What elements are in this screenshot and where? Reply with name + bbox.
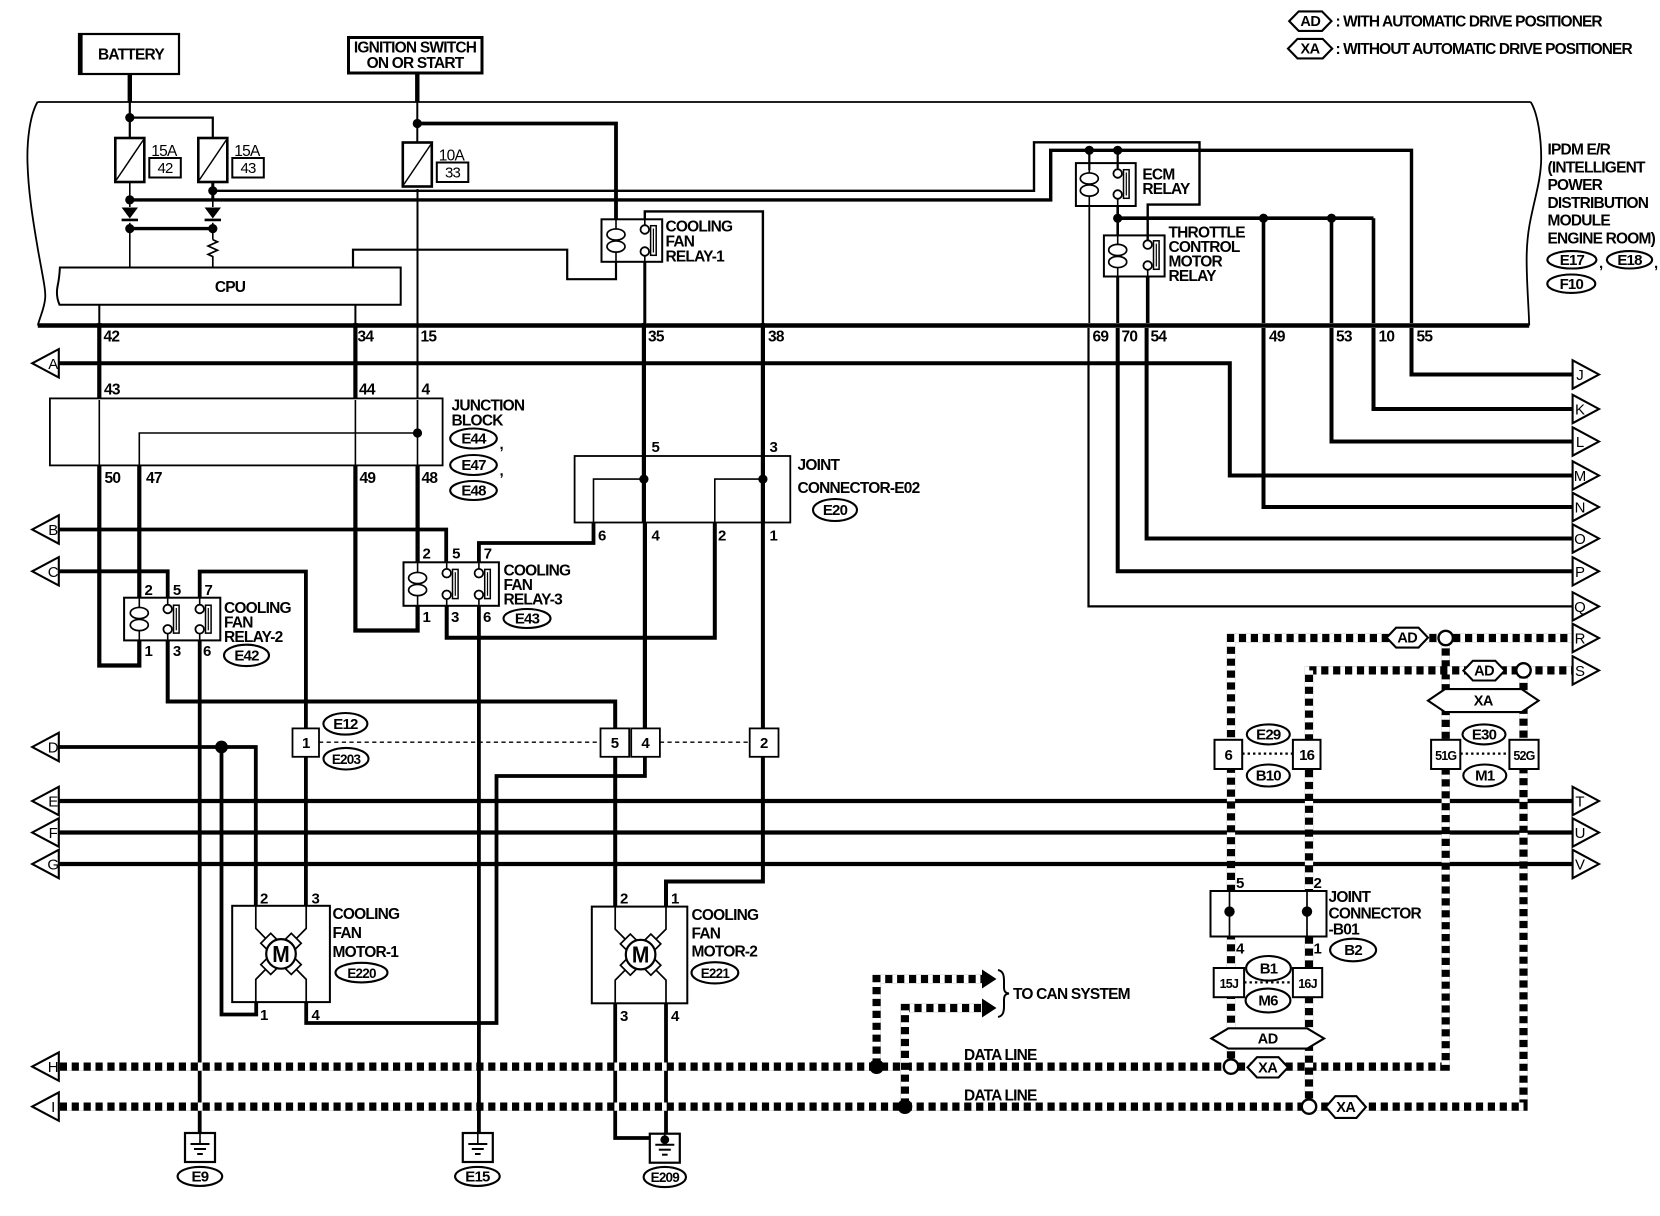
svg-text:MOTOR-2: MOTOR-2 [692, 944, 758, 961]
wire relay-2 pin 6 to ground E9 [198, 640, 202, 1133]
svg-text:E30: E30 [1472, 727, 1497, 744]
svg-text:T: T [1575, 794, 1584, 811]
svg-text:C: C [48, 564, 59, 581]
junction block internal 44-49 wire [354, 400, 356, 465]
arrow E [32, 787, 59, 815]
AD hexagon wide above data line [1211, 1028, 1324, 1048]
cooling fan motor-2 [592, 907, 688, 1004]
svg-text:7: 7 [484, 546, 492, 563]
AD hexagon on R line [1387, 628, 1428, 648]
svg-text:49: 49 [360, 470, 377, 487]
wire relay-2 pin 7 to connector E203 pin 1 [200, 572, 306, 729]
wire pin 49 to N [1264, 328, 1573, 507]
junction battery branch [125, 113, 134, 122]
svg-text:JOINT: JOINT [798, 457, 841, 474]
connector ref E9 [178, 1167, 223, 1186]
wire CPU pin 34 to bus [354, 305, 356, 323]
svg-text:AD: AD [1397, 631, 1417, 647]
connector ref E209 [644, 1167, 686, 1187]
wire pin 42 to junction block pin 43 [97, 323, 101, 398]
svg-text:E203: E203 [332, 752, 362, 767]
wire E to T [59, 799, 1573, 803]
wire drop to pin 10 [1372, 218, 1376, 323]
svg-text:70: 70 [1122, 329, 1138, 346]
svg-text:34: 34 [358, 329, 375, 346]
svg-text:E20: E20 [823, 502, 848, 519]
wire E02 pin 1 through E203 pin 2 to motor-2 pin 1 [666, 523, 763, 907]
CAN data line I [59, 678, 1524, 1107]
svg-text:ON OR START: ON OR START [367, 55, 465, 72]
svg-text:E18: E18 [1617, 252, 1642, 269]
svg-text:U: U [1575, 825, 1585, 842]
wire pin 47 to relay-2 coil (pin 2) [137, 465, 141, 597]
svg-text:E15: E15 [465, 1169, 490, 1186]
svg-text:53: 53 [1336, 329, 1353, 346]
wire ECM relay contact to throttle relay coil [1116, 206, 1119, 235]
arrow D [32, 733, 59, 761]
junction diodes link right [208, 224, 217, 233]
wire diode 1 to CPU [129, 223, 131, 268]
connector box 51G [1431, 740, 1460, 769]
arrow U [1573, 818, 1599, 846]
svg-text:FAN: FAN [333, 925, 362, 942]
dotted link 51G-52G [1460, 752, 1509, 754]
IPDM E/R bottom edge (connector bus) [38, 323, 1529, 328]
wire E02 pin 4 to connector E203 pin 4 [643, 523, 647, 729]
wire relay-3 pin 7 to joint connector E02 pin 6 [479, 523, 594, 563]
connector ref E220 [336, 963, 388, 983]
connector box 52G [1509, 740, 1538, 769]
svg-text:IGNITION SWITCH: IGNITION SWITCH [354, 40, 477, 57]
svg-text:6: 6 [203, 643, 211, 660]
junction block internal 43-50 wire [98, 400, 100, 465]
svg-text:RELAY: RELAY [1169, 268, 1218, 285]
svg-text:DISTRIBUTION: DISTRIBUTION [1548, 195, 1649, 212]
CPU box [57, 268, 401, 305]
wire ignition branch to cooling fan relay-1 coil [417, 124, 616, 220]
svg-text:6: 6 [1225, 747, 1233, 764]
svg-text:K: K [1575, 402, 1585, 419]
svg-text:2: 2 [1314, 875, 1322, 892]
brace to CAN system [998, 970, 1009, 1017]
wire fuse 43 to throttle control motor relay feed [214, 142, 1200, 241]
svg-text:5: 5 [652, 439, 660, 456]
svg-text:5: 5 [173, 582, 181, 599]
svg-text:AD: AD [1258, 1031, 1278, 1047]
svg-text:M: M [272, 941, 290, 967]
svg-text:3: 3 [770, 439, 778, 456]
svg-text:H: H [48, 1059, 58, 1076]
svg-text:52G: 52G [1513, 749, 1534, 763]
cooling fan relay-2 contact 2 [195, 598, 211, 641]
svg-text:S: S [1575, 663, 1585, 680]
wire pin 48 to relay-3 coil (pin 2) [416, 465, 420, 562]
cooling fan relay-3 box [404, 562, 499, 606]
connector ref B2 [1330, 939, 1376, 962]
svg-text:F: F [49, 825, 58, 842]
svg-text:E220: E220 [347, 966, 376, 981]
svg-text:B1: B1 [1260, 961, 1278, 978]
svg-text:33: 33 [445, 165, 461, 182]
svg-text:TO CAN SYSTEM: TO CAN SYSTEM [1013, 986, 1130, 1003]
junction pin 53 drop [1327, 214, 1336, 223]
cooling fan relay-1 box E? [602, 219, 663, 261]
cooling fan relay-1 contact [641, 219, 657, 261]
joint connector B01 internal junction right [1302, 906, 1312, 916]
wire ignition to IPDM [415, 74, 419, 102]
ground E15 [463, 1133, 493, 1162]
joint connector B01 internal junction left [1224, 906, 1234, 916]
CAN data line H [59, 645, 1446, 1067]
ground E9 [185, 1133, 215, 1162]
wire ECM relay coil to pin 69 [1088, 206, 1090, 323]
wire pin 53 to L [1332, 328, 1573, 442]
arrow M [1573, 461, 1599, 489]
svg-text:COOLING: COOLING [692, 907, 759, 924]
connector ref B1 [1246, 956, 1291, 981]
svg-text:4: 4 [422, 382, 431, 399]
svg-text:3: 3 [173, 643, 181, 660]
wire E203 pin 4 to motor-1 pin 4 [306, 757, 645, 1023]
svg-text:CONNECTOR-E02: CONNECTOR-E02 [798, 480, 920, 497]
joint connector E02 box [575, 456, 791, 523]
wire CPU to relay-1 coil return [353, 250, 616, 280]
svg-text:7: 7 [205, 582, 213, 599]
svg-text:F10: F10 [1560, 276, 1584, 293]
legend AD hexagon [1289, 11, 1331, 31]
svg-text:CONNECTOR: CONNECTOR [1329, 906, 1422, 923]
arrow G [32, 850, 59, 878]
wire fuse 43 output stub [211, 182, 214, 199]
svg-text:1: 1 [1314, 941, 1322, 958]
svg-text:D: D [48, 740, 59, 757]
arrow L [1573, 427, 1599, 455]
wire relay-1 contact to pin 38 [645, 211, 763, 323]
svg-text:E: E [48, 794, 58, 811]
svg-text:Q: Q [1574, 599, 1585, 616]
arrow Q [1573, 592, 1599, 620]
joint connector E02 internal wire left [594, 479, 644, 522]
ignition switch box [349, 38, 483, 74]
XA hexagon on H line [1248, 1057, 1289, 1077]
wire throttle feed run to pin 10 line [1118, 216, 1374, 220]
connector ref E43 [504, 609, 551, 628]
wire fuse 42 to ECM relay feed (pin 55 run) [131, 150, 1412, 323]
svg-text:49: 49 [1269, 329, 1286, 346]
wire branch to fuse 43 [130, 118, 213, 138]
svg-text:XA: XA [1301, 42, 1321, 58]
XA hexagon wide right [1428, 689, 1539, 712]
junction ECM relay coil feed [1085, 146, 1094, 155]
wire pin 35 to joint connector E02 pin 5 [642, 323, 646, 456]
junction throttle relay coil feed [1113, 214, 1122, 223]
svg-text:51G: 51G [1435, 749, 1456, 763]
svg-text:1: 1 [302, 735, 310, 752]
svg-text:5: 5 [611, 735, 619, 752]
connector ref E17 [1547, 251, 1596, 269]
svg-text:43: 43 [240, 160, 256, 177]
svg-text:2: 2 [760, 735, 768, 752]
svg-text:R: R [1575, 631, 1586, 648]
svg-text:2: 2 [423, 546, 431, 563]
arrow V [1573, 850, 1599, 878]
svg-text:DATA LINE: DATA LINE [964, 1047, 1037, 1064]
svg-text:MOTOR-1: MOTOR-1 [333, 944, 400, 961]
svg-text:JOINT: JOINT [1329, 889, 1372, 906]
svg-text:M: M [1574, 468, 1586, 485]
svg-text:V: V [1575, 857, 1585, 874]
ground E209 [650, 1134, 680, 1163]
svg-text:M: M [632, 942, 650, 968]
wire pin 10 to K [1374, 328, 1573, 409]
svg-text:I: I [51, 1099, 54, 1116]
svg-text:P: P [1575, 564, 1585, 581]
connector ref E29 [1247, 724, 1290, 744]
wire throttle relay coil to pin 70 [1116, 277, 1119, 324]
arrow R [1573, 624, 1599, 652]
arrow K [1573, 395, 1599, 423]
connector ref E47 [450, 455, 497, 475]
svg-text:O: O [1574, 531, 1585, 548]
CAN arrow head 1 [982, 970, 997, 989]
svg-text:J: J [1576, 367, 1583, 384]
connector E12/E203 dashed line [319, 741, 600, 743]
svg-text:(INTELLIGENT: (INTELLIGENT [1548, 159, 1646, 176]
wire D to cooling fan motor-1 pin 2 [60, 747, 256, 906]
wire relay-2 pin 3 to connector E203 pin 5 [168, 640, 616, 728]
svg-text:42: 42 [157, 160, 173, 177]
cooling fan relay-1 coil [607, 219, 625, 261]
connector box 16J [1293, 968, 1322, 997]
wire motor-2 pin 3 to ground E209 [615, 1003, 650, 1138]
wire pin 50 to relay-2 coil (pin 1) [99, 465, 139, 665]
junction CAN branch 1 [869, 1059, 884, 1074]
svg-text:XA: XA [1258, 1060, 1278, 1076]
CAN branch to CAN system 2 [905, 1008, 983, 1107]
arrow O [1573, 524, 1599, 552]
svg-text:AD: AD [1474, 664, 1494, 680]
arrow H [32, 1052, 59, 1080]
svg-text:54: 54 [1151, 329, 1168, 346]
connector E12/E203 box 4 [631, 728, 660, 756]
wire pin 70 to P [1118, 328, 1573, 571]
svg-text:AD: AD [1300, 14, 1320, 30]
wire pin 54 to O [1147, 328, 1573, 539]
wire relay-3 pin 6 to ground E15 [477, 606, 481, 1133]
svg-text:RELAY-1: RELAY-1 [666, 249, 726, 266]
svg-text:A: A [48, 356, 58, 373]
wire ignition feed to fuse 33 [416, 102, 418, 143]
throttle control motor relay box [1104, 235, 1165, 276]
svg-text:69: 69 [1093, 329, 1110, 346]
ECM relay contact [1113, 163, 1129, 206]
wire CPU pin 42 to bus [98, 305, 100, 323]
svg-text:RELAY-2: RELAY-2 [224, 629, 283, 646]
svg-text:44: 44 [359, 382, 376, 399]
svg-text:IPDM E/R: IPDM E/R [1548, 142, 1611, 159]
svg-text:38: 38 [768, 329, 785, 346]
svg-text:B: B [48, 522, 58, 539]
wire drop to pin 49 [1262, 218, 1266, 323]
junction block internal wire to pin 48 [417, 433, 419, 465]
svg-text:N: N [1575, 500, 1585, 517]
svg-text:XA: XA [1336, 1100, 1356, 1116]
wire F to U [59, 830, 1573, 834]
svg-text:2: 2 [620, 891, 628, 908]
connector ref E203 [324, 748, 369, 770]
joint connector E02 internal junction right [758, 475, 767, 484]
svg-text:1: 1 [423, 609, 431, 626]
IPDM E/R box right torn edge [1527, 102, 1542, 326]
svg-text:2: 2 [260, 891, 268, 908]
svg-text:43: 43 [104, 382, 121, 399]
IPDM E/R box top edge [38, 101, 1531, 103]
throttle relay contact [1143, 235, 1159, 276]
svg-text:POWER: POWER [1548, 177, 1603, 194]
svg-text:MODULE: MODULE [1548, 213, 1611, 230]
open junction H line [1224, 1059, 1238, 1073]
connector ref E18 [1607, 251, 1652, 269]
svg-text:48: 48 [422, 470, 439, 487]
joint connector E02 internal junction left [639, 475, 648, 484]
svg-text:E17: E17 [1560, 252, 1585, 269]
wire G to V [59, 862, 1573, 866]
svg-text:15: 15 [421, 329, 438, 346]
arrow F [32, 818, 59, 846]
wire motor-2 pin 4 to ground E209 [664, 1003, 668, 1143]
connector ref E20 [813, 499, 857, 521]
svg-text:E44: E44 [461, 431, 487, 448]
arrow S [1573, 656, 1599, 684]
CAN arrow head 2 [982, 999, 997, 1018]
svg-text:3: 3 [451, 609, 459, 626]
wire fuse 43 to diode [212, 195, 214, 207]
connector ref M6 [1246, 989, 1291, 1013]
wire A to M (via IPDM pins row) [59, 363, 1573, 475]
dotted link 6-16 [1242, 752, 1293, 754]
cooling fan relay-3 coil [409, 562, 427, 606]
wire pin 38 to joint connector E02 pin 3 [761, 323, 765, 456]
junction CAN branch 2 [898, 1099, 913, 1114]
svg-text:3: 3 [312, 891, 320, 908]
svg-text:RELAY-3: RELAY-3 [504, 592, 564, 609]
svg-text:B10: B10 [1256, 768, 1282, 785]
arrow T [1573, 787, 1599, 815]
resistor to CPU [208, 240, 217, 268]
wire pin 55 to J [1412, 328, 1573, 375]
svg-text:15J: 15J [1220, 977, 1239, 991]
wire D branch to motor-1 pin 1 [222, 747, 257, 1015]
wire B to relay-3 contact (pin 5) [59, 530, 446, 563]
connector E12/E203 box 1 [293, 728, 320, 756]
connector box 16 [1293, 740, 1321, 769]
svg-text:G: G [47, 857, 58, 874]
wire pin 69 to Q [1089, 328, 1573, 606]
wire E203 pin 1 to motor-1 pin 3 [304, 757, 308, 906]
svg-text:FAN: FAN [692, 926, 721, 943]
legend XA hexagon [1288, 39, 1332, 59]
svg-text:: WITH AUTOMATIC DRIVE POSITIO: : WITH AUTOMATIC DRIVE POSITIONER [1336, 14, 1603, 31]
arrow I [32, 1092, 59, 1120]
svg-text:B2: B2 [1344, 942, 1362, 959]
IPDM E/R box left torn edge [27, 102, 45, 326]
svg-text:M6: M6 [1258, 993, 1278, 1010]
svg-text:L: L [1576, 434, 1584, 451]
wire throttle relay contact to pin 54 [1146, 277, 1150, 324]
arrow J [1573, 360, 1599, 388]
cooling fan relay-3 contact 1 [442, 562, 458, 606]
fuse 15A 42 [115, 138, 181, 182]
cooling fan relay-2 box [124, 598, 220, 641]
arrow B [32, 515, 59, 543]
svg-text:55: 55 [1417, 329, 1434, 346]
svg-text:5: 5 [1236, 875, 1244, 892]
svg-text:-B01: -B01 [1329, 922, 1361, 939]
ECM relay box [1076, 163, 1136, 206]
svg-text:E43: E43 [515, 611, 540, 628]
svg-text:10: 10 [1379, 329, 1395, 346]
connector E12/E203 box 5 [601, 728, 630, 756]
wire relay-3 pin 3 to joint connector E02 pin 2 [447, 523, 715, 638]
svg-text:1: 1 [671, 891, 679, 908]
svg-text:: WITHOUT AUTOMATIC DRIVE POSI: : WITHOUT AUTOMATIC DRIVE POSITIONER [1336, 41, 1633, 58]
open junction S line [1516, 663, 1530, 677]
svg-text:E29: E29 [1256, 727, 1281, 744]
cooling fan motor-1 [232, 906, 330, 1002]
wire linking diode outputs [130, 227, 213, 230]
wire diode 2 to resistor [212, 223, 214, 240]
dotted link 15J-16J [1244, 981, 1293, 983]
arrow N [1573, 493, 1599, 521]
junction D branch [215, 741, 228, 754]
svg-text:COOLING: COOLING [333, 906, 400, 923]
wire E203 pin 5 to motor-2 pin 2 [613, 757, 617, 907]
arrow A [32, 349, 59, 377]
svg-text:E47: E47 [461, 457, 486, 474]
connector box 6 [1215, 740, 1243, 769]
svg-text:E12: E12 [333, 716, 358, 733]
joint connector E02 internal wire right [715, 479, 763, 522]
battery box [79, 34, 179, 74]
diode below fuse 43 [205, 208, 221, 220]
CAN branch to CAN system 1 [877, 979, 983, 1067]
connector ref M1 [1463, 765, 1506, 787]
connector ref E15 [455, 1167, 500, 1186]
junction ignition branch [413, 119, 422, 128]
diode below fuse 42 [122, 208, 138, 220]
XA hexagon on I line [1326, 1096, 1366, 1118]
svg-text:16: 16 [1299, 747, 1315, 764]
throttle relay coil [1109, 235, 1127, 276]
svg-text:E209: E209 [651, 1170, 680, 1185]
cooling fan relay-3 contact 2 [475, 562, 491, 606]
svg-text:50: 50 [105, 470, 121, 487]
cooling fan relay-2 contact 1 [163, 598, 179, 641]
svg-text:1: 1 [145, 643, 153, 660]
joint connector E02 pin3-pin1 through wire [761, 456, 765, 523]
open junction I line [1302, 1099, 1316, 1113]
svg-text:E42: E42 [234, 648, 259, 665]
arrow C [32, 557, 59, 585]
fuse 10A 33 [403, 143, 469, 187]
wire pin 34 to junction block pin 44 [353, 323, 357, 398]
wire fuse 42 to diode [129, 182, 131, 207]
svg-text:DATA LINE: DATA LINE [964, 1088, 1037, 1105]
junction block internal pin4 wire [417, 400, 419, 433]
arrow P [1573, 557, 1599, 585]
svg-text:1: 1 [770, 528, 778, 545]
joint connector E02 pin5-pin4 through wire [642, 456, 646, 523]
